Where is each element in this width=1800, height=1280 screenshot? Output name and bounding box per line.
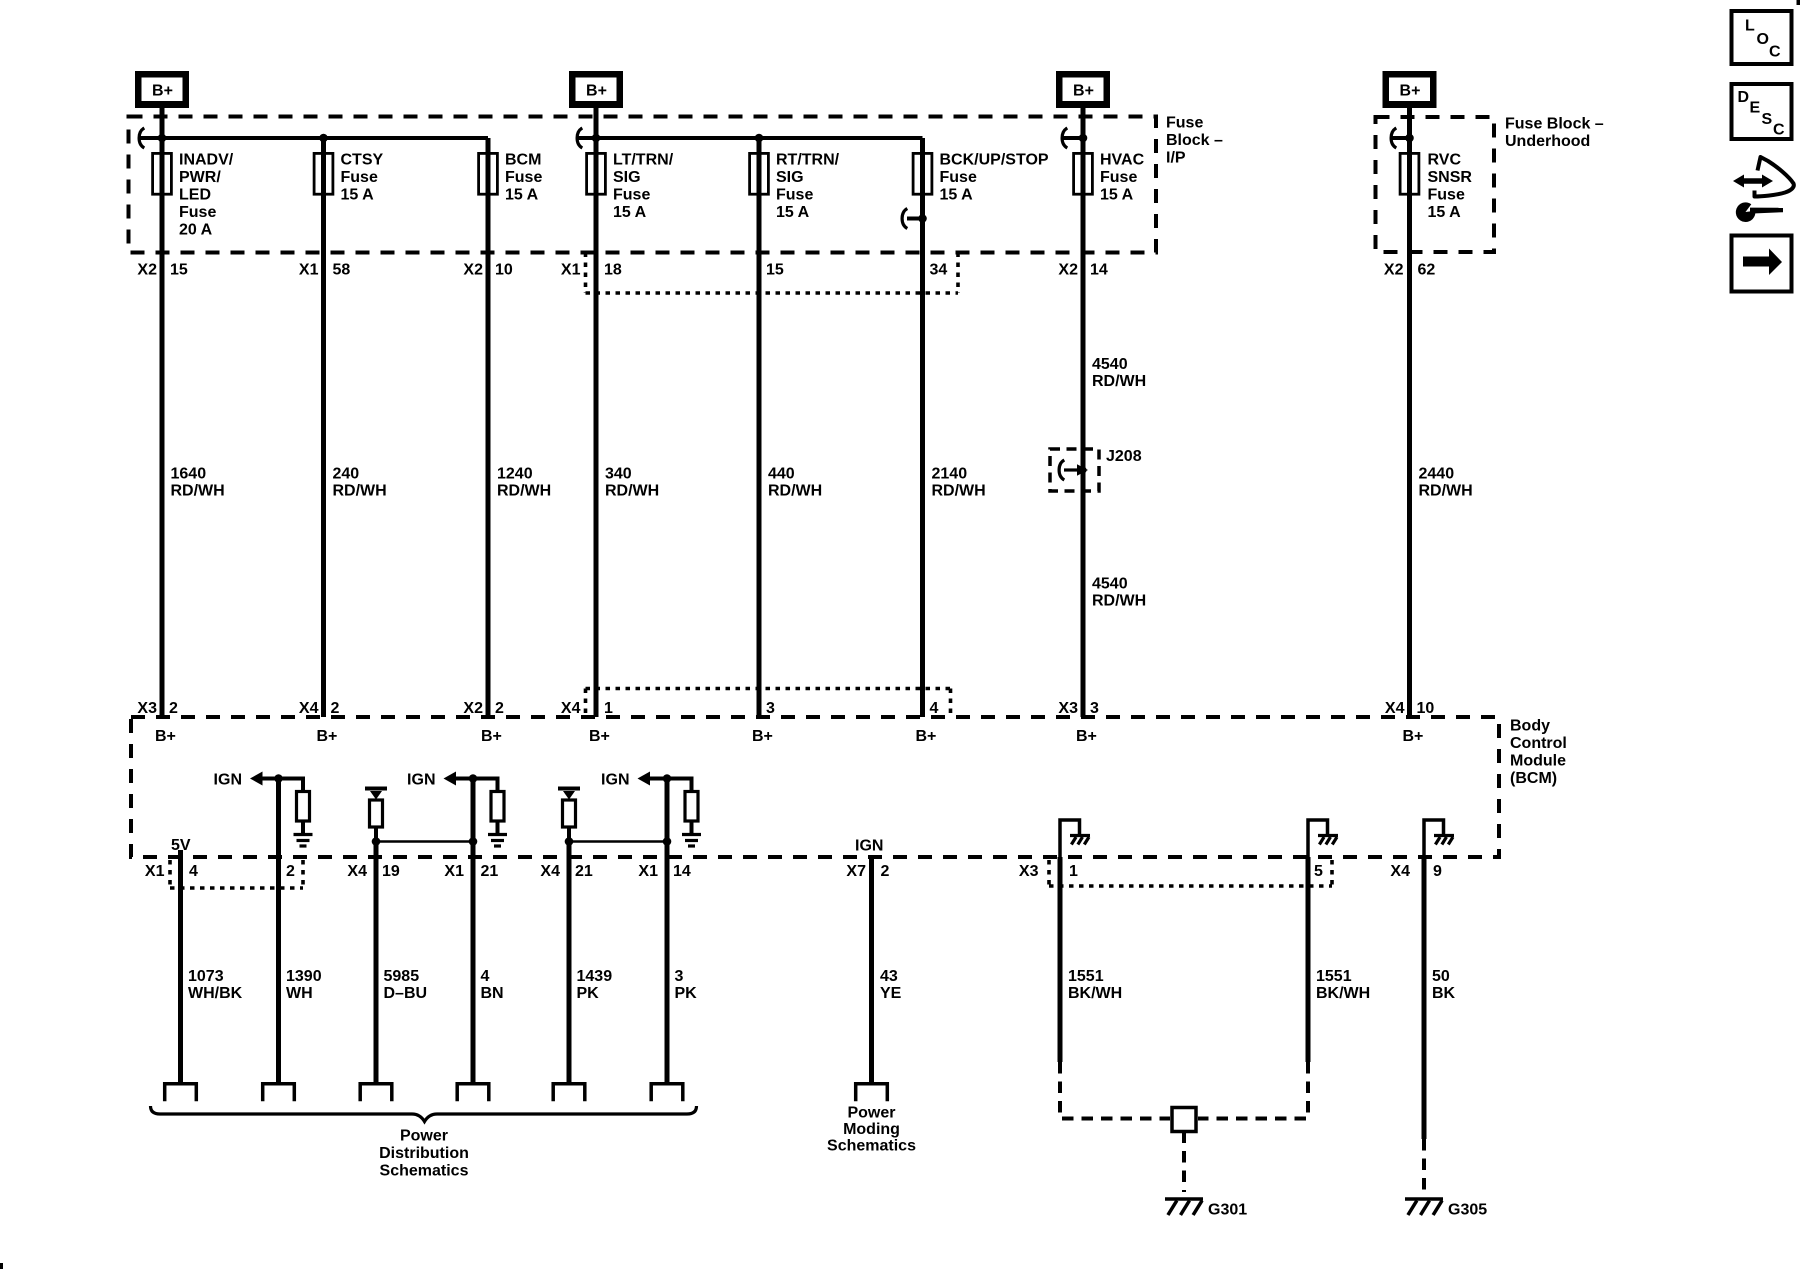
wire 1073 WH/BK bbox=[178, 850, 183, 1084]
svg-text:B+: B+ bbox=[481, 728, 502, 745]
svg-text:Fuse: Fuse bbox=[1166, 115, 1203, 132]
wire resistor to ground bbox=[496, 821, 500, 835]
svg-text:LED: LED bbox=[179, 187, 211, 204]
clip symbol at bus A entry bbox=[139, 128, 144, 148]
svg-text:HVAC: HVAC bbox=[1100, 152, 1145, 169]
dashed harness to splice bbox=[1060, 1062, 1170, 1119]
svg-text:2: 2 bbox=[881, 863, 890, 880]
power node B+ (feeds RVC SNSR fuse) bbox=[1383, 71, 1437, 108]
artifact speck top-right bbox=[1797, 0, 1800, 5]
svg-text:1551: 1551 bbox=[1068, 968, 1104, 985]
svg-text:BK: BK bbox=[1432, 985, 1456, 1002]
wire 4540 RD/WH (upper) bbox=[1081, 153, 1086, 718]
artifact speck bottom-left bbox=[0, 1263, 3, 1269]
ground (BCM internal) bbox=[488, 833, 507, 836]
svg-text:15 A: 15 A bbox=[776, 204, 810, 221]
svg-text:1439: 1439 bbox=[577, 968, 613, 985]
off-page connector bbox=[553, 1084, 585, 1102]
wire link pin19 to pin21 bbox=[376, 840, 473, 843]
wire B+ feed to RVC SNSR fuse bbox=[1407, 108, 1412, 155]
svg-text:Moding: Moding bbox=[843, 1121, 900, 1138]
Fuse Block - I/P dashed enclosure bbox=[129, 117, 1157, 253]
svg-text:Fuse: Fuse bbox=[341, 169, 378, 186]
svg-text:X1: X1 bbox=[299, 262, 319, 279]
svg-text:2440: 2440 bbox=[1419, 466, 1455, 483]
svg-text:RT/TRN/: RT/TRN/ bbox=[776, 152, 840, 169]
svg-text:440: 440 bbox=[768, 466, 795, 483]
svg-text:15 A: 15 A bbox=[341, 187, 375, 204]
svg-text:2: 2 bbox=[169, 700, 178, 717]
icon DESC box bbox=[1732, 84, 1792, 139]
junction dot bus B at RT/TRN wire bbox=[755, 134, 764, 143]
svg-text:S: S bbox=[1762, 111, 1773, 128]
svg-text:RD/WH: RD/WH bbox=[768, 483, 822, 500]
brace for Power Distribution Schematics bbox=[151, 1106, 697, 1122]
wire 1240 RD/WH bbox=[486, 153, 491, 718]
wire BCM pin 21 internal bbox=[471, 779, 476, 858]
svg-text:B+: B+ bbox=[1400, 83, 1421, 100]
svg-text:I/P: I/P bbox=[1166, 150, 1186, 167]
wire BCM pin 14 internal bbox=[665, 779, 670, 858]
wire 340 RD/WH bbox=[594, 153, 599, 718]
svg-text:15 A: 15 A bbox=[1100, 187, 1134, 204]
wire B+ feed to INADV fuse bbox=[160, 108, 165, 155]
svg-text:B+: B+ bbox=[155, 728, 176, 745]
svg-text:Fuse: Fuse bbox=[776, 187, 813, 204]
svg-text:B+: B+ bbox=[317, 728, 338, 745]
junction dot bbox=[663, 837, 672, 846]
dashed wire to G301 bbox=[1182, 1132, 1186, 1193]
svg-text:X1: X1 bbox=[145, 863, 165, 880]
junction dot at HVAC wire bbox=[1079, 134, 1088, 143]
svg-text:5: 5 bbox=[1314, 863, 1323, 880]
wire 440 RD/WH bbox=[757, 153, 762, 718]
svg-text:B+: B+ bbox=[1073, 83, 1094, 100]
svg-text:IGN: IGN bbox=[407, 772, 435, 789]
voltage supply T-bar bbox=[365, 787, 387, 791]
svg-text:3: 3 bbox=[675, 968, 684, 985]
svg-text:240: 240 bbox=[333, 466, 360, 483]
svg-text:50: 50 bbox=[1432, 968, 1450, 985]
svg-text:14: 14 bbox=[1090, 262, 1108, 279]
svg-text:PWR/: PWR/ bbox=[179, 169, 221, 186]
fuse HVAC 15 A bbox=[1074, 153, 1093, 194]
svg-text:IGN: IGN bbox=[601, 772, 629, 789]
wire B+ feed to HVAC fuse bbox=[1081, 108, 1086, 155]
ground structure BCM pin X3-1 bbox=[1060, 820, 1080, 857]
svg-text:Schematics: Schematics bbox=[380, 1163, 469, 1180]
svg-text:(BCM): (BCM) bbox=[1510, 770, 1557, 787]
svg-text:15 A: 15 A bbox=[613, 204, 647, 221]
svg-text:34: 34 bbox=[930, 262, 948, 279]
svg-text:58: 58 bbox=[333, 262, 351, 279]
node IGN arrow bbox=[638, 772, 651, 786]
svg-text:BCM: BCM bbox=[505, 152, 541, 169]
svg-text:RD/WH: RD/WH bbox=[1092, 373, 1146, 390]
power node B+ (feeds HVAC fuse) bbox=[1056, 71, 1110, 108]
svg-text:10: 10 bbox=[495, 262, 513, 279]
svg-text:RD/WH: RD/WH bbox=[171, 483, 225, 500]
svg-text:X7: X7 bbox=[846, 863, 866, 880]
junction dot bbox=[469, 837, 478, 846]
off-page connector bbox=[263, 1084, 295, 1102]
svg-text:Fuse: Fuse bbox=[179, 204, 216, 221]
svg-text:X1: X1 bbox=[638, 863, 658, 880]
icon LOC box bbox=[1732, 11, 1792, 64]
svg-text:2: 2 bbox=[286, 863, 295, 880]
power node B+ (feeds INADV bus) bbox=[135, 71, 189, 108]
node IGN arrow bbox=[444, 772, 457, 786]
svg-text:D: D bbox=[1738, 89, 1750, 106]
clip symbol on BCK/UP/STOP output wire bbox=[902, 209, 907, 229]
svg-text:B+: B+ bbox=[1076, 728, 1097, 745]
resistor (BCM internal) bbox=[685, 792, 698, 822]
wire 1640 RD/WH bbox=[160, 153, 165, 718]
svg-text:15 A: 15 A bbox=[1428, 204, 1462, 221]
svg-text:D–BU: D–BU bbox=[384, 985, 428, 1002]
wire 1551 BK/WH (right) bbox=[1306, 857, 1311, 1062]
wire resistor to ground bbox=[301, 821, 305, 835]
svg-text:1551: 1551 bbox=[1316, 968, 1352, 985]
wire 43 YE bbox=[869, 857, 874, 1084]
off-page connector bbox=[651, 1084, 683, 1102]
svg-text:PK: PK bbox=[577, 985, 600, 1002]
svg-text:SIG: SIG bbox=[776, 169, 804, 186]
dashed wire to G305 bbox=[1422, 1139, 1426, 1192]
svg-text:X2: X2 bbox=[1058, 262, 1078, 279]
svg-text:21: 21 bbox=[481, 863, 499, 880]
svg-text:19: 19 bbox=[382, 863, 400, 880]
svg-text:BN: BN bbox=[481, 985, 504, 1002]
wire 5985 D-BU bbox=[374, 857, 379, 1084]
fuse INADV/PWR/LED 20 A bbox=[153, 153, 172, 194]
ground G305 bbox=[1405, 1197, 1443, 1201]
svg-text:1390: 1390 bbox=[286, 968, 322, 985]
svg-text:Fuse: Fuse bbox=[1428, 187, 1465, 204]
ground (BCM internal) bbox=[294, 833, 313, 836]
wire stub to HVAC wire bbox=[1063, 136, 1083, 140]
fuse BCK/UP/STOP 15 A bbox=[913, 153, 932, 194]
power node B+ (feeds LT/TRN bus) bbox=[569, 71, 623, 108]
svg-text:RD/WH: RD/WH bbox=[1092, 593, 1146, 610]
svg-text:C: C bbox=[1769, 44, 1781, 61]
svg-text:B+: B+ bbox=[152, 83, 173, 100]
svg-text:SIG: SIG bbox=[613, 169, 641, 186]
svg-text:B+: B+ bbox=[589, 728, 610, 745]
resistor (BCM internal) bbox=[491, 792, 504, 822]
svg-text:4: 4 bbox=[481, 968, 490, 985]
svg-text:BK/WH: BK/WH bbox=[1316, 985, 1370, 1002]
wire 3 PK bbox=[665, 857, 670, 1084]
Fuse Block - Underhood dashed enclosure bbox=[1376, 117, 1495, 252]
svg-text:X4: X4 bbox=[347, 863, 367, 880]
svg-text:1640: 1640 bbox=[171, 466, 207, 483]
svg-text:14: 14 bbox=[673, 863, 691, 880]
svg-text:1073: 1073 bbox=[188, 968, 224, 985]
svg-text:RD/WH: RD/WH bbox=[497, 483, 551, 500]
svg-text:1: 1 bbox=[604, 700, 613, 717]
ground structure BCM pin X4-9 bbox=[1424, 820, 1444, 857]
svg-text:Distribution: Distribution bbox=[379, 1145, 469, 1162]
svg-text:X2: X2 bbox=[1384, 262, 1404, 279]
wire stub to RVC wire bbox=[1392, 136, 1410, 140]
wire link pin21 to pin14 bbox=[569, 840, 667, 843]
svg-text:BK/WH: BK/WH bbox=[1068, 985, 1122, 1002]
wire junction to resistor bbox=[473, 779, 498, 791]
svg-text:2140: 2140 bbox=[932, 466, 968, 483]
svg-text:J208: J208 bbox=[1106, 448, 1142, 465]
clip symbol at HVAC feed bbox=[1062, 128, 1067, 148]
junction dot bbox=[565, 837, 574, 846]
resistor (BCM internal) bbox=[297, 792, 310, 822]
svg-text:RVC: RVC bbox=[1428, 152, 1462, 169]
svg-text:21: 21 bbox=[575, 863, 593, 880]
svg-text:9: 9 bbox=[1433, 863, 1442, 880]
wire from BCM fuse down bbox=[486, 138, 491, 160]
svg-text:1: 1 bbox=[1069, 863, 1078, 880]
svg-text:C: C bbox=[1773, 122, 1785, 139]
svg-text:X3: X3 bbox=[137, 700, 157, 717]
wire bus A (INADV/CTSY/BCM fuses) bbox=[140, 136, 488, 140]
fuse LT/TRN/SIG 15 A bbox=[587, 153, 606, 194]
in-line connector symbol inside J208 bbox=[1059, 460, 1064, 480]
wire resistor to ground bbox=[690, 821, 694, 835]
fuse BCM 15 A bbox=[479, 153, 498, 194]
svg-text:15 A: 15 A bbox=[505, 187, 539, 204]
svg-text:X4: X4 bbox=[561, 700, 581, 717]
svg-text:10: 10 bbox=[1417, 700, 1435, 717]
svg-text:LT/TRN/: LT/TRN/ bbox=[613, 152, 674, 169]
wire 50 BK bbox=[1422, 857, 1427, 1139]
svg-text:IGN: IGN bbox=[214, 772, 242, 789]
svg-text:3: 3 bbox=[1090, 700, 1099, 717]
Body Control Module (BCM) dashed enclosure bbox=[131, 717, 1499, 857]
ground (BCM internal) bbox=[682, 833, 701, 836]
svg-text:WH/BK: WH/BK bbox=[188, 985, 243, 1002]
wire 240 RD/WH bbox=[321, 153, 326, 718]
svg-text:IGN: IGN bbox=[855, 838, 883, 855]
svg-text:X4: X4 bbox=[540, 863, 560, 880]
connector X4 dotted box (BCM pins 1/3/4) bbox=[586, 687, 951, 691]
ground G301 bbox=[1165, 1197, 1203, 1201]
off-page connector bbox=[165, 1084, 197, 1102]
svg-text:1240: 1240 bbox=[497, 466, 533, 483]
svg-text:4: 4 bbox=[189, 863, 198, 880]
svg-text:X4: X4 bbox=[1390, 863, 1410, 880]
wire 1551 BK/WH (left) bbox=[1058, 857, 1063, 1062]
junction dot bus B at LT/TRN wire bbox=[592, 134, 601, 143]
svg-text:Fuse Block –: Fuse Block – bbox=[1505, 116, 1604, 133]
svg-text:CTSY: CTSY bbox=[341, 152, 384, 169]
off-page connector bbox=[856, 1084, 888, 1102]
wire from CTSY fuse down bbox=[321, 138, 326, 160]
svg-text:20 A: 20 A bbox=[179, 222, 213, 239]
off-page connector bbox=[360, 1084, 392, 1102]
connector X3 dotted box (BCM pins 1/5) bbox=[1047, 860, 1051, 886]
svg-text:Underhood: Underhood bbox=[1505, 133, 1590, 150]
svg-text:4540: 4540 bbox=[1092, 576, 1128, 593]
wire BCM pin 2 internal bbox=[276, 779, 281, 858]
splice block S-box bbox=[1172, 1108, 1196, 1132]
wire from RT/TRN fuse bbox=[757, 138, 762, 160]
wire BCM pin 21 internal bbox=[567, 842, 572, 858]
wire junction to resistor bbox=[279, 779, 304, 791]
svg-text:X1: X1 bbox=[444, 863, 464, 880]
svg-text:Fuse: Fuse bbox=[505, 169, 542, 186]
wire 1439 PK bbox=[567, 857, 572, 1084]
svg-text:4: 4 bbox=[930, 700, 939, 717]
connector J208 dashed box bbox=[1050, 449, 1099, 491]
wire resistor to junction bbox=[374, 827, 378, 842]
svg-text:L: L bbox=[1745, 18, 1755, 35]
wire BCM pin 19 internal bbox=[374, 842, 379, 858]
svg-text:5985: 5985 bbox=[384, 968, 420, 985]
svg-text:X4: X4 bbox=[1385, 700, 1405, 717]
svg-text:4540: 4540 bbox=[1092, 356, 1128, 373]
wire 4 BN bbox=[471, 857, 476, 1084]
svg-text:B+: B+ bbox=[916, 728, 937, 745]
svg-text:Schematics: Schematics bbox=[827, 1138, 916, 1155]
svg-text:O: O bbox=[1757, 31, 1769, 48]
fuse CTSY 15 A bbox=[314, 153, 333, 194]
clip symbol at RVC feed bbox=[1391, 128, 1396, 148]
svg-text:Control: Control bbox=[1510, 735, 1567, 752]
wire B+ feed to LT/TRN fuse bbox=[594, 108, 599, 155]
svg-text:B+: B+ bbox=[586, 83, 607, 100]
svg-text:Body: Body bbox=[1510, 718, 1550, 735]
svg-text:X4: X4 bbox=[299, 700, 319, 717]
svg-text:INADV/: INADV/ bbox=[179, 152, 234, 169]
svg-text:G305: G305 bbox=[1448, 1202, 1487, 1219]
icon two-way communication arrows and wrench bbox=[1733, 175, 1773, 188]
svg-text:Fuse: Fuse bbox=[940, 169, 977, 186]
connector X1 dotted box (BCM pins 4/2) bbox=[168, 860, 172, 888]
svg-text:BCK/UP/STOP: BCK/UP/STOP bbox=[940, 152, 1049, 169]
svg-text:WH: WH bbox=[286, 985, 313, 1002]
svg-text:B+: B+ bbox=[1403, 728, 1424, 745]
wire junction to resistor bbox=[667, 779, 692, 791]
connector X1 dotted box (fuse block I/P pins 18/15/34) bbox=[584, 253, 588, 294]
svg-text:Block –: Block – bbox=[1166, 132, 1223, 149]
junction dot at RVC wire bbox=[1405, 134, 1414, 143]
svg-text:X3: X3 bbox=[1058, 700, 1078, 717]
svg-text:X2: X2 bbox=[463, 700, 483, 717]
svg-text:43: 43 bbox=[880, 968, 898, 985]
svg-text:Fuse: Fuse bbox=[1100, 169, 1137, 186]
wire 1390 WH bbox=[276, 857, 281, 1084]
clip symbol at bus B entry bbox=[577, 128, 582, 148]
svg-text:Power: Power bbox=[847, 1105, 895, 1122]
svg-text:15 A: 15 A bbox=[940, 187, 974, 204]
wire 2140 RD/WH bbox=[920, 219, 925, 718]
svg-text:X2: X2 bbox=[463, 262, 483, 279]
svg-text:15: 15 bbox=[170, 262, 188, 279]
svg-text:62: 62 bbox=[1418, 262, 1436, 279]
svg-text:340: 340 bbox=[605, 466, 632, 483]
junction dot bus A at CTSY wire bbox=[319, 134, 328, 143]
svg-text:2: 2 bbox=[495, 700, 504, 717]
wire from BCK/UP/STOP fuse bbox=[920, 138, 925, 220]
node IGN arrow bbox=[250, 772, 263, 786]
svg-text:G301: G301 bbox=[1208, 1202, 1247, 1219]
svg-text:X1: X1 bbox=[561, 262, 581, 279]
svg-text:SNSR: SNSR bbox=[1428, 169, 1473, 186]
svg-text:PK: PK bbox=[675, 985, 698, 1002]
svg-text:Fuse: Fuse bbox=[613, 187, 650, 204]
wire resistor to junction bbox=[567, 827, 571, 842]
fuse RT/TRN/SIG 15 A bbox=[750, 153, 769, 194]
fuse RVC SNSR 15 A bbox=[1400, 153, 1419, 194]
svg-text:RD/WH: RD/WH bbox=[932, 483, 986, 500]
voltage supply T-bar bbox=[558, 787, 580, 791]
svg-text:YE: YE bbox=[880, 985, 902, 1002]
svg-text:X2: X2 bbox=[137, 262, 157, 279]
dashed harness to splice bbox=[1198, 1062, 1308, 1119]
icon forward arrow box bbox=[1732, 236, 1792, 292]
svg-text:RD/WH: RD/WH bbox=[333, 483, 387, 500]
svg-text:RD/WH: RD/WH bbox=[605, 483, 659, 500]
svg-text:Module: Module bbox=[1510, 753, 1566, 770]
svg-text:RD/WH: RD/WH bbox=[1419, 483, 1473, 500]
svg-text:X3: X3 bbox=[1019, 863, 1039, 880]
svg-text:2: 2 bbox=[331, 700, 340, 717]
svg-text:3: 3 bbox=[766, 700, 775, 717]
junction dot bbox=[372, 837, 381, 846]
svg-text:15: 15 bbox=[766, 262, 784, 279]
wire bus B (LT/RT/BCK fuses) bbox=[578, 136, 923, 140]
svg-text:18: 18 bbox=[604, 262, 622, 279]
ground structure BCM pin 5 bbox=[1308, 820, 1328, 857]
off-page connector bbox=[457, 1084, 489, 1102]
svg-text:Power: Power bbox=[400, 1128, 448, 1145]
svg-text:B+: B+ bbox=[752, 728, 773, 745]
svg-text:E: E bbox=[1750, 100, 1761, 117]
junction dot bus A at INADV wire bbox=[158, 134, 167, 143]
resistor (BCM internal pull-up) bbox=[563, 800, 576, 827]
wire 2440 RD/WH bbox=[1407, 153, 1412, 718]
resistor (BCM internal pull-up) bbox=[370, 800, 383, 827]
